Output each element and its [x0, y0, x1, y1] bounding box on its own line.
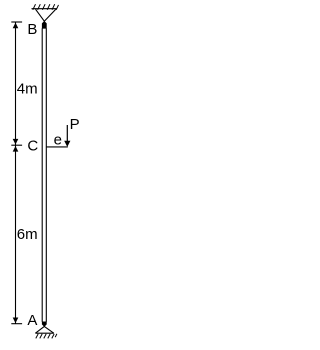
- dim arrow up (below C tick): [13, 146, 19, 152]
- pin support triangle at A: [35, 326, 53, 333]
- column right line: [45, 28, 47, 321]
- svg-text:4m: 4m: [17, 81, 38, 98]
- svg-text:B: B: [27, 21, 37, 38]
- svg-text:6m: 6m: [17, 226, 38, 243]
- ground hatching at A: [36, 334, 57, 339]
- pin support triangle at B: [36, 9, 56, 21]
- svg-text:e: e: [54, 131, 62, 148]
- svg-text:A: A: [27, 312, 37, 329]
- top end block (boot) of column at B: [42, 21, 47, 29]
- dim arrow down (bottom, above A tick): [13, 318, 19, 324]
- load arrow P: [66, 125, 68, 142]
- ceiling hatching: [33, 4, 59, 10]
- bracket line at C: [46, 146, 68, 148]
- dimension tick at C level: [11, 144, 22, 146]
- ceiling line of top support B: [32, 8, 58, 10]
- dimension tick at A level: [11, 323, 22, 325]
- column left line: [41, 28, 43, 321]
- svg-text:P: P: [70, 116, 80, 133]
- bottom end block (boot) of column at A: [42, 322, 47, 327]
- dimension line vertical: [15, 22, 17, 324]
- dim arrow down (above C tick): [13, 139, 19, 145]
- dimension tick at B level: [11, 21, 22, 23]
- dim arrow up (top, under B tick): [13, 23, 19, 29]
- svg-text:C: C: [27, 137, 38, 154]
